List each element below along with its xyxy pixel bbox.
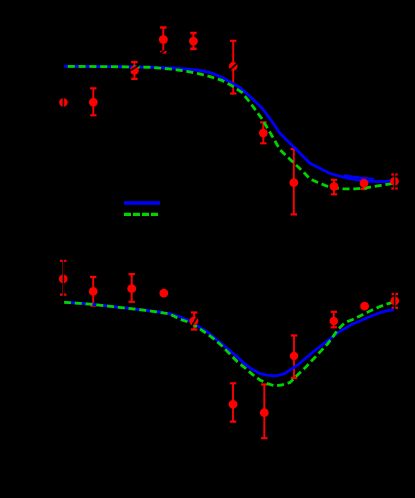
- point Q5 error bar: [191, 313, 197, 330]
- point P6 error bar: [230, 41, 236, 94]
- point Q6 error bar: [291, 336, 297, 379]
- point Q10 marker: [360, 302, 369, 311]
- point P8 error bar: [291, 149, 297, 214]
- black slash over point P6: [229, 63, 239, 72]
- data markers: bottom panel: [59, 275, 399, 418]
- point P9 error bar: [331, 180, 337, 195]
- point P10 error bar: [361, 178, 367, 189]
- point Q2 marker: [89, 287, 98, 296]
- point Q11 marker: [390, 296, 399, 305]
- data markers: top panel: [59, 35, 399, 191]
- legend green dashed line sample: [124, 213, 159, 216]
- point P8 marker: [289, 178, 298, 187]
- error bars: bottom panel data: [60, 261, 398, 438]
- point P7 marker: [259, 129, 268, 138]
- point Q9 marker: [330, 317, 339, 326]
- black slash over point P3: [130, 66, 139, 71]
- point P11 marker: [390, 177, 399, 186]
- point Q7 error bar: [230, 383, 236, 421]
- black plot-frame right edge drawn over data: [394, 15, 396, 460]
- point P6 marker: [229, 62, 238, 71]
- top panel green dashed model curve: [64, 66, 395, 188]
- point Q8 error bar: [261, 385, 267, 439]
- point P9 marker: [330, 182, 339, 191]
- point Q3 error bar: [129, 274, 135, 302]
- point P5 error bar: [190, 33, 196, 49]
- point Q4 marker: [159, 289, 168, 298]
- point P5 marker: [189, 37, 198, 46]
- point Q3 marker: [127, 284, 136, 293]
- bottom panel blue solid model curve: [64, 302, 395, 376]
- bottom panel green dashed model curve: [64, 302, 395, 386]
- point P3 error bar: [131, 62, 137, 79]
- point P2 error bar: [90, 88, 96, 115]
- point P7 error bar: [260, 122, 266, 143]
- point Q5 marker: [189, 317, 198, 326]
- black slash over point P4 bottom cap: [160, 49, 167, 54]
- point P4 marker: [159, 35, 168, 44]
- point Q8 marker: [260, 408, 269, 417]
- black slash over point Q5: [192, 316, 197, 325]
- point Q6 marker: [290, 352, 298, 360]
- legend blue solid line sample: [124, 201, 160, 204]
- point Q2 error bar: [90, 277, 96, 306]
- point Q11 error bar: [392, 294, 398, 308]
- point Q1 error bar: [60, 261, 66, 295]
- point Q7 marker: [229, 400, 238, 409]
- point P1 marker: [59, 98, 68, 107]
- point P2 marker: [89, 98, 98, 107]
- point Q1 marker: [59, 275, 68, 284]
- point P10 marker: [360, 179, 369, 188]
- point Q9 error bar: [331, 312, 337, 328]
- black plot-frame left edge drawn over data: [62, 15, 64, 460]
- top panel blue solid model curve: [64, 66, 395, 181]
- error bars: top panel data: [90, 28, 398, 215]
- point P3 marker: [130, 66, 139, 75]
- point P11 error bar: [391, 175, 397, 189]
- top panel secondary blue branch (upper fork of blue curve near right end): [344, 175, 374, 179]
- point P4 error bar: [160, 28, 166, 53]
